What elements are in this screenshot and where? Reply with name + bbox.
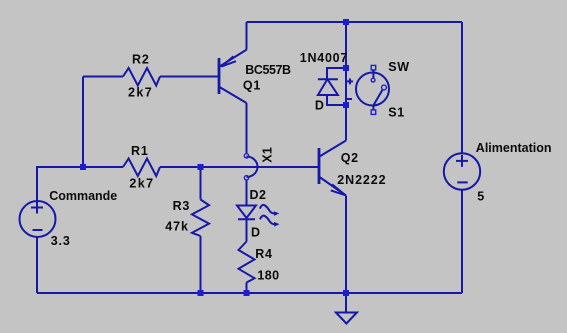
wire bottom rail — [37, 292, 462, 294]
wire R2 right lead to Q1 base — [160, 76, 218, 78]
wire jumper to LED vertical — [246, 180, 248, 206]
resistor R2 — [123, 68, 160, 86]
junction node left branch — [80, 164, 86, 170]
svg-text:S1: S1 — [388, 106, 405, 120]
resistor R3 — [192, 200, 209, 237]
resistor R4 — [239, 242, 255, 283]
svg-text:180: 180 — [257, 268, 279, 282]
wire Commande to node horizontal — [37, 166, 83, 168]
voltage source Commande — [20, 201, 56, 237]
svg-text:2N2222: 2N2222 — [337, 173, 386, 187]
wire LED to R4 — [246, 219, 248, 241]
wire R2 left lead — [83, 76, 123, 78]
svg-text:Commande: Commande — [49, 189, 117, 203]
wire R1 left lead — [83, 166, 123, 168]
wire R1 right lead to Q2 base — [160, 166, 318, 168]
svg-text:47k: 47k — [165, 220, 189, 234]
svg-text:5: 5 — [477, 189, 484, 203]
resistor R1 — [123, 159, 160, 177]
wire Commande bottom vertical — [36, 237, 38, 293]
wire center vertical rail — [345, 22, 347, 141]
transistor Q1 body — [219, 50, 247, 104]
voltage source Alimentation — [444, 153, 480, 189]
junction node ground — [343, 290, 349, 296]
LED D2 — [237, 205, 279, 227]
svg-text:Q2: Q2 — [341, 151, 359, 165]
svg-text:R3: R3 — [173, 199, 191, 213]
svg-text:Q1: Q1 — [243, 78, 261, 92]
wire R3 bottom lead — [200, 236, 202, 293]
wire Commande top vertical — [36, 166, 38, 201]
transistor Q2 body — [319, 141, 346, 196]
svg-text:Alimentation: Alimentation — [476, 141, 552, 155]
junction node R3 bottom — [198, 290, 204, 296]
wire R4 bottom lead — [246, 283, 248, 294]
junction node R3 top — [198, 164, 204, 170]
wire Q2 emitter vertical — [345, 196, 347, 294]
svg-text:SW: SW — [388, 60, 409, 74]
wire top rail — [247, 21, 463, 23]
junction node diode anode / Q2 collector — [343, 102, 349, 108]
wire left branch vertical — [82, 77, 84, 168]
wire diode anode branch — [327, 95, 346, 105]
wire Alimentation bottom vertical — [461, 189, 463, 293]
svg-text:3.3: 3.3 — [51, 234, 71, 248]
svg-text:D: D — [251, 226, 260, 240]
wire Q1 collector vertical — [246, 103, 248, 154]
junction node top rail / center rail — [343, 19, 349, 25]
wire R3 top lead — [200, 167, 202, 200]
ground — [336, 313, 357, 324]
wire diode cathode branch — [327, 68, 346, 79]
svg-text:R1: R1 — [131, 144, 149, 158]
svg-text:1N4007: 1N4007 — [300, 51, 348, 65]
wire Q1 emitter vertical — [246, 22, 248, 50]
svg-text:R4: R4 — [255, 247, 273, 261]
wire Alimentation top vertical — [461, 22, 463, 154]
wire ground stem — [345, 293, 347, 313]
svg-text:2k7: 2k7 — [128, 86, 153, 100]
svg-text:D2: D2 — [250, 188, 267, 202]
svg-text:D: D — [315, 99, 324, 113]
svg-text:2k7: 2k7 — [129, 177, 154, 191]
diode D 1N4007 — [318, 79, 338, 95]
junction node diode cathode — [343, 65, 349, 71]
svg-text:X1: X1 — [261, 147, 275, 163]
svg-text:BC557B: BC557B — [245, 63, 291, 77]
switch SW S1 — [347, 65, 389, 114]
jumper X1 wire hop — [244, 154, 257, 180]
junction node R4 bottom — [244, 290, 250, 296]
svg-text:R2: R2 — [132, 53, 150, 67]
